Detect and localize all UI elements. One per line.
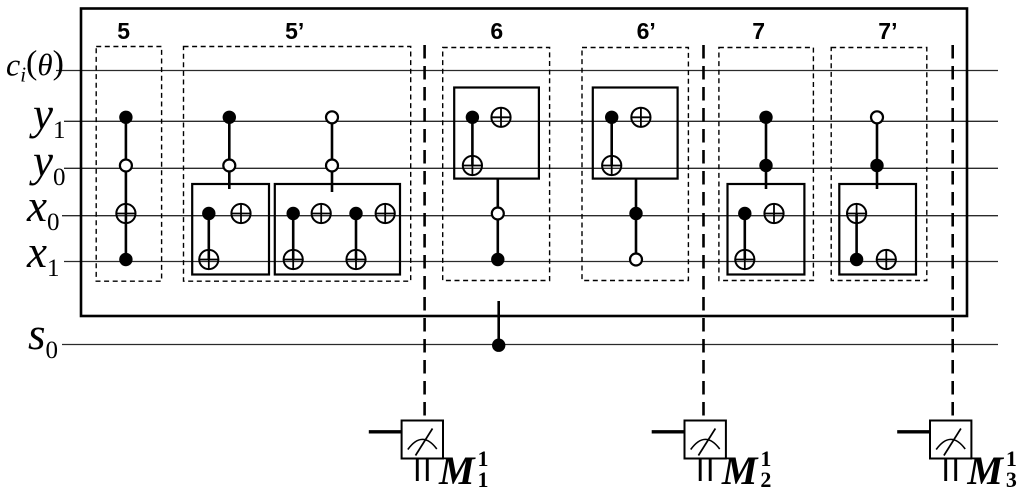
svg-text:M: M bbox=[438, 448, 476, 493]
svg-text:7: 7 bbox=[752, 18, 765, 44]
control dot on x0 (column 6') bbox=[629, 207, 642, 220]
svg-text:M: M bbox=[721, 448, 759, 493]
CNOT line in box 5'a bbox=[208, 214, 211, 260]
dashed group box 7 bbox=[719, 48, 814, 281]
control dot on y0 (column 7') bbox=[870, 159, 883, 172]
CNOT line in box 7 bbox=[743, 214, 746, 260]
dashed group box 5 bbox=[96, 47, 161, 282]
dashed group box 6' bbox=[582, 48, 688, 281]
NOT gate on y1 (box 6') bbox=[631, 108, 650, 127]
measurement M1: meter dial arc bbox=[408, 439, 437, 449]
CNOT target on x1 (box 7) bbox=[735, 250, 754, 269]
measurement M1: input line bbox=[369, 430, 402, 433]
CNOT line in box 7' bbox=[855, 214, 858, 260]
measurement M2: meter needle bbox=[698, 429, 715, 456]
circuit block outline bbox=[81, 9, 967, 317]
CNOT line 2 in box 5'b bbox=[355, 214, 358, 260]
solid gate box 7' bbox=[839, 184, 916, 275]
wire c_i(theta) bbox=[56, 70, 998, 72]
open control on x0 (column 6) bbox=[492, 208, 504, 220]
control dot on y1 (column 5) bbox=[119, 111, 132, 124]
control line column 7 bbox=[765, 117, 768, 189]
control dot on y1 (5' gate 1) bbox=[223, 111, 236, 124]
open control on y1 (5' gate 2) bbox=[326, 111, 338, 123]
CNOT target on x1 (box 5'b left) bbox=[284, 250, 303, 269]
dashed group box 6 bbox=[443, 48, 550, 281]
CNOT line in box 6 bbox=[471, 117, 474, 165]
measurement M3: meter dial arc bbox=[936, 439, 965, 449]
measurement M2: classical double wire bbox=[700, 459, 710, 482]
CNOT line 1 in box 5'b bbox=[292, 214, 295, 260]
solid gate box 5'a bbox=[192, 184, 269, 275]
control dot on x0 (box 5'b right) bbox=[349, 207, 362, 220]
control line column 5' gate 1 bbox=[228, 117, 231, 189]
measurement M3: input line bbox=[897, 430, 930, 433]
open control on x1 (column 6') bbox=[630, 254, 642, 266]
control dot on s0 (column 6) bbox=[492, 339, 505, 352]
solid gate box 7 bbox=[728, 184, 805, 275]
separator dashed line 2 bbox=[702, 45, 705, 419]
open control on y0 (5' gate 1) bbox=[223, 160, 235, 172]
gate column 5: multi-controlled NOT bbox=[125, 117, 128, 259]
NOT gate on x0 (box 5'b left) bbox=[312, 204, 331, 223]
measurement M1: meter needle bbox=[416, 429, 433, 456]
wire x_0 bbox=[62, 215, 998, 217]
control dot on x0 (box 5'a) bbox=[202, 207, 215, 220]
wire s_0 bbox=[62, 344, 998, 346]
svg-text:6’: 6’ bbox=[637, 18, 656, 44]
svg-text:ci(θ): ci(θ) bbox=[6, 45, 64, 87]
control line column 7' bbox=[876, 117, 879, 189]
NOT gate on x0 (box 5'b right) bbox=[376, 204, 395, 223]
separator dashed line 1 bbox=[423, 45, 426, 419]
control dot on y1 (column 7) bbox=[759, 111, 772, 124]
control line column 5' gate 2 bbox=[331, 117, 334, 192]
open control on y0 (5' gate 2) bbox=[326, 160, 338, 172]
measurement M1: classical double wire bbox=[417, 459, 427, 482]
CNOT line in box 6' bbox=[610, 117, 613, 165]
control dot on x0 (box 5'b left) bbox=[287, 207, 300, 220]
svg-text:6: 6 bbox=[490, 18, 503, 44]
control dot on x1 (column 5) bbox=[119, 253, 132, 266]
wire y_0 bbox=[64, 167, 998, 169]
dashed group box 7' bbox=[831, 48, 927, 281]
measurement M3: meter box bbox=[930, 421, 971, 459]
control line below box 6' bbox=[635, 179, 638, 260]
CNOT target on x0 (column 5) bbox=[116, 204, 135, 223]
control dot on y1 (box 6) bbox=[466, 111, 479, 124]
open control on y0 (column 5) bbox=[120, 160, 132, 172]
dashed group box 5' bbox=[184, 47, 411, 282]
CNOT target on y0 (box 6') bbox=[602, 156, 621, 175]
svg-text:7’: 7’ bbox=[878, 18, 897, 44]
svg-text:3: 3 bbox=[1006, 467, 1017, 492]
NOT gate on x1 (box 7') bbox=[877, 250, 896, 269]
solid gate box 5'b bbox=[275, 184, 400, 275]
control dot on y0 (column 7) bbox=[759, 159, 772, 172]
measurement M2: meter box bbox=[685, 421, 726, 459]
wire x_1 bbox=[64, 261, 998, 263]
control dot on y1 (box 6') bbox=[605, 111, 618, 124]
control dot on x0 (box 7) bbox=[738, 207, 751, 220]
control dot on x1 (column 6) bbox=[491, 253, 504, 266]
svg-text:5: 5 bbox=[117, 18, 130, 44]
svg-text:5’: 5’ bbox=[285, 18, 304, 44]
separator dashed line 3 bbox=[951, 45, 954, 419]
open control on y1 (column 7') bbox=[871, 111, 883, 123]
control line column 5 bbox=[125, 117, 128, 259]
measurement M2: meter dial arc bbox=[691, 439, 720, 449]
control line below box 6 bbox=[496, 179, 499, 260]
CNOT target on x1 (box 5'b right) bbox=[346, 250, 365, 269]
measurement M3: meter needle bbox=[944, 429, 961, 456]
svg-text:2: 2 bbox=[760, 467, 771, 492]
solid gate box 6' bbox=[593, 88, 678, 179]
NOT gate on y1 (box 6) bbox=[491, 108, 510, 127]
svg-text:M: M bbox=[966, 448, 1004, 493]
CNOT target on x0 (box 7') bbox=[847, 204, 866, 223]
measurement M3: classical double wire bbox=[946, 459, 956, 482]
control line to s0 (column 6) bbox=[497, 301, 500, 345]
NOT gate on x0 (box 5'a) bbox=[231, 204, 250, 223]
measurement M1: meter box bbox=[402, 421, 443, 459]
CNOT target on y0 (box 6) bbox=[463, 156, 482, 175]
wire y_1 bbox=[64, 120, 998, 122]
svg-text:1: 1 bbox=[478, 467, 489, 492]
measurement M2: input line bbox=[652, 430, 685, 433]
NOT gate on x0 (box 7) bbox=[764, 204, 783, 223]
solid gate box 6 bbox=[454, 88, 539, 179]
CNOT target on x1 (box 5'a) bbox=[199, 250, 218, 269]
control dot on x1 (box 7') bbox=[850, 253, 863, 266]
